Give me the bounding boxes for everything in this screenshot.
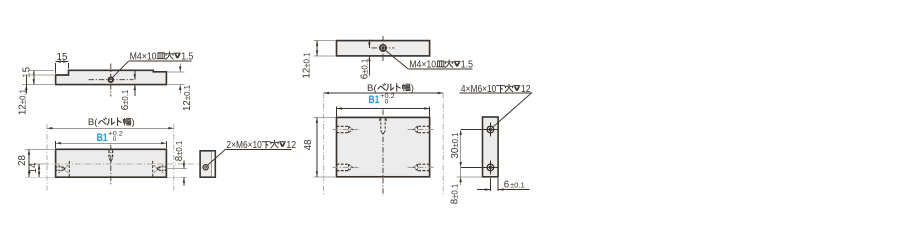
svg-text:12±0.1: 12±0.1 bbox=[17, 89, 28, 115]
svg-text:8±0.1: 8±0.1 bbox=[174, 141, 185, 162]
svg-text:M4×10: M4×10 bbox=[130, 50, 157, 62]
svg-text:12: 12 bbox=[286, 138, 296, 150]
svg-text:1.5: 1.5 bbox=[461, 58, 473, 70]
svg-text:1.5: 1.5 bbox=[181, 50, 193, 62]
svg-text:): ) bbox=[411, 83, 414, 94]
svg-text:B(: B( bbox=[367, 83, 377, 94]
svg-text:M4×10: M4×10 bbox=[409, 58, 436, 70]
svg-text:14: 14 bbox=[28, 162, 39, 173]
svg-text:±0.1: ±0.1 bbox=[510, 181, 525, 190]
svg-text:12±0.1: 12±0.1 bbox=[302, 53, 313, 79]
svg-text:12: 12 bbox=[521, 82, 531, 94]
svg-text:B1: B1 bbox=[97, 132, 108, 144]
svg-text:6±0.1: 6±0.1 bbox=[120, 90, 131, 111]
svg-text:4×M6×10: 4×M6×10 bbox=[461, 83, 496, 94]
svg-text:30±0.1: 30±0.1 bbox=[450, 133, 461, 159]
svg-text:B(: B( bbox=[88, 117, 98, 128]
svg-text:6: 6 bbox=[504, 180, 510, 191]
svg-text:8±0.1: 8±0.1 bbox=[449, 184, 460, 205]
svg-text:15: 15 bbox=[57, 52, 68, 63]
svg-text:2×M6×10: 2×M6×10 bbox=[226, 139, 261, 150]
svg-text:48: 48 bbox=[303, 140, 314, 151]
svg-text:B1: B1 bbox=[368, 94, 379, 106]
svg-text:0: 0 bbox=[385, 98, 389, 105]
svg-text:12±0.1: 12±0.1 bbox=[182, 85, 193, 111]
svg-text:6±0.1: 6±0.1 bbox=[359, 59, 370, 80]
svg-text:): ) bbox=[132, 117, 135, 128]
svg-text:0: 0 bbox=[113, 136, 117, 143]
svg-text:28: 28 bbox=[17, 155, 28, 166]
svg-text:15: 15 bbox=[21, 67, 32, 78]
